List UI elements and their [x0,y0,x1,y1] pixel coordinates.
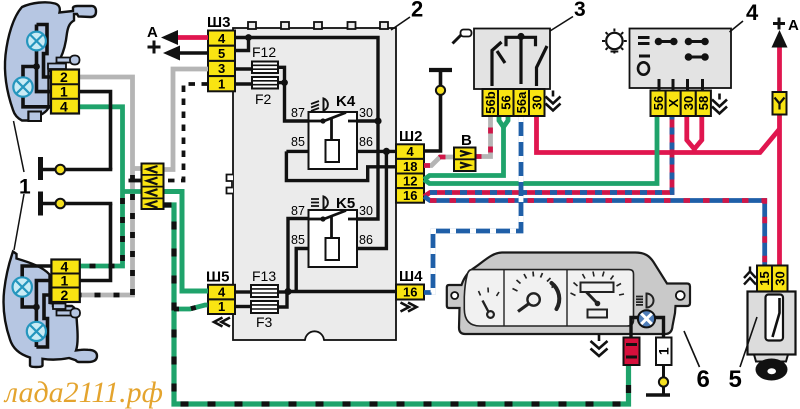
svg-text:F12: F12 [252,44,276,60]
svg-text:6: 6 [697,366,710,393]
svg-text:1: 1 [19,176,31,199]
svg-text:F13: F13 [252,268,276,284]
svg-text:2: 2 [61,287,69,303]
svg-text:56: 56 [651,96,666,110]
svg-text:30: 30 [359,106,373,120]
svg-text:86: 86 [359,135,373,149]
svg-text:30: 30 [681,96,696,110]
svg-text:В: В [461,132,472,149]
svg-text:4: 4 [218,285,226,300]
svg-text:56a: 56a [514,91,529,113]
svg-text:Ш5: Ш5 [206,269,229,286]
svg-text:85: 85 [291,135,305,149]
svg-text:87: 87 [291,106,305,120]
svg-text:1: 1 [656,347,672,355]
svg-text:F2: F2 [255,91,272,107]
svg-text:4: 4 [407,144,415,159]
svg-text:16: 16 [403,188,417,203]
svg-text:56b: 56b [483,91,498,113]
svg-text:3: 3 [574,0,586,21]
svg-text:лада2111.рф: лада2111.рф [3,376,163,409]
svg-text:3: 3 [218,61,225,76]
svg-text:85: 85 [291,233,305,247]
svg-text:Ш3: Ш3 [207,14,230,31]
svg-text:58: 58 [696,96,711,110]
svg-text:87: 87 [291,204,305,218]
svg-text:56: 56 [498,95,513,109]
svg-text:1: 1 [218,299,225,314]
svg-text:2: 2 [411,0,423,22]
svg-text:4: 4 [218,31,226,46]
svg-text:15: 15 [757,271,772,285]
svg-text:86: 86 [359,233,373,247]
svg-text:Ш2: Ш2 [399,128,422,145]
svg-text:12: 12 [403,173,417,188]
svg-text:A: A [788,17,799,34]
svg-text:4: 4 [746,0,759,25]
svg-text:5: 5 [218,46,225,61]
svg-text:2: 2 [60,69,68,85]
svg-text:30: 30 [359,204,373,218]
svg-text:18: 18 [403,159,417,174]
svg-text:F3: F3 [256,314,273,330]
svg-text:K4: K4 [336,93,356,110]
svg-text:1: 1 [218,76,225,91]
svg-text:30: 30 [772,271,787,285]
svg-text:A: A [147,24,158,41]
svg-text:30: 30 [529,95,544,109]
svg-text:4: 4 [60,98,68,114]
svg-text:5: 5 [729,366,742,393]
svg-text:16: 16 [403,285,417,300]
svg-text:X: X [666,98,681,107]
svg-text:1: 1 [60,84,68,100]
svg-text:Ш4: Ш4 [399,268,423,285]
svg-text:K5: K5 [336,195,355,212]
